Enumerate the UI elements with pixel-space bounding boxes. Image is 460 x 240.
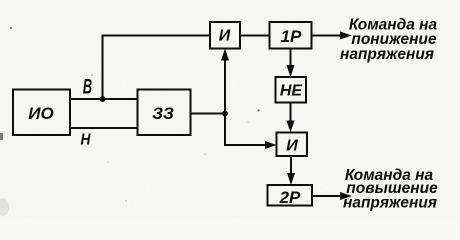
svg-text:Н: Н	[81, 132, 91, 149]
svg-text:В: В	[83, 74, 92, 98]
svg-text:ИО: ИО	[28, 104, 53, 123]
svg-text:И: И	[219, 28, 231, 45]
svg-text:напряжения: напряжения	[343, 195, 437, 212]
svg-text:1Р: 1Р	[281, 27, 302, 46]
svg-text:напряжения: напряжения	[340, 46, 434, 63]
svg-text:ЗЗ: ЗЗ	[152, 104, 174, 123]
svg-text:И: И	[286, 138, 298, 155]
svg-text:НЕ: НЕ	[280, 83, 304, 100]
svg-text:2Р: 2Р	[279, 188, 301, 207]
